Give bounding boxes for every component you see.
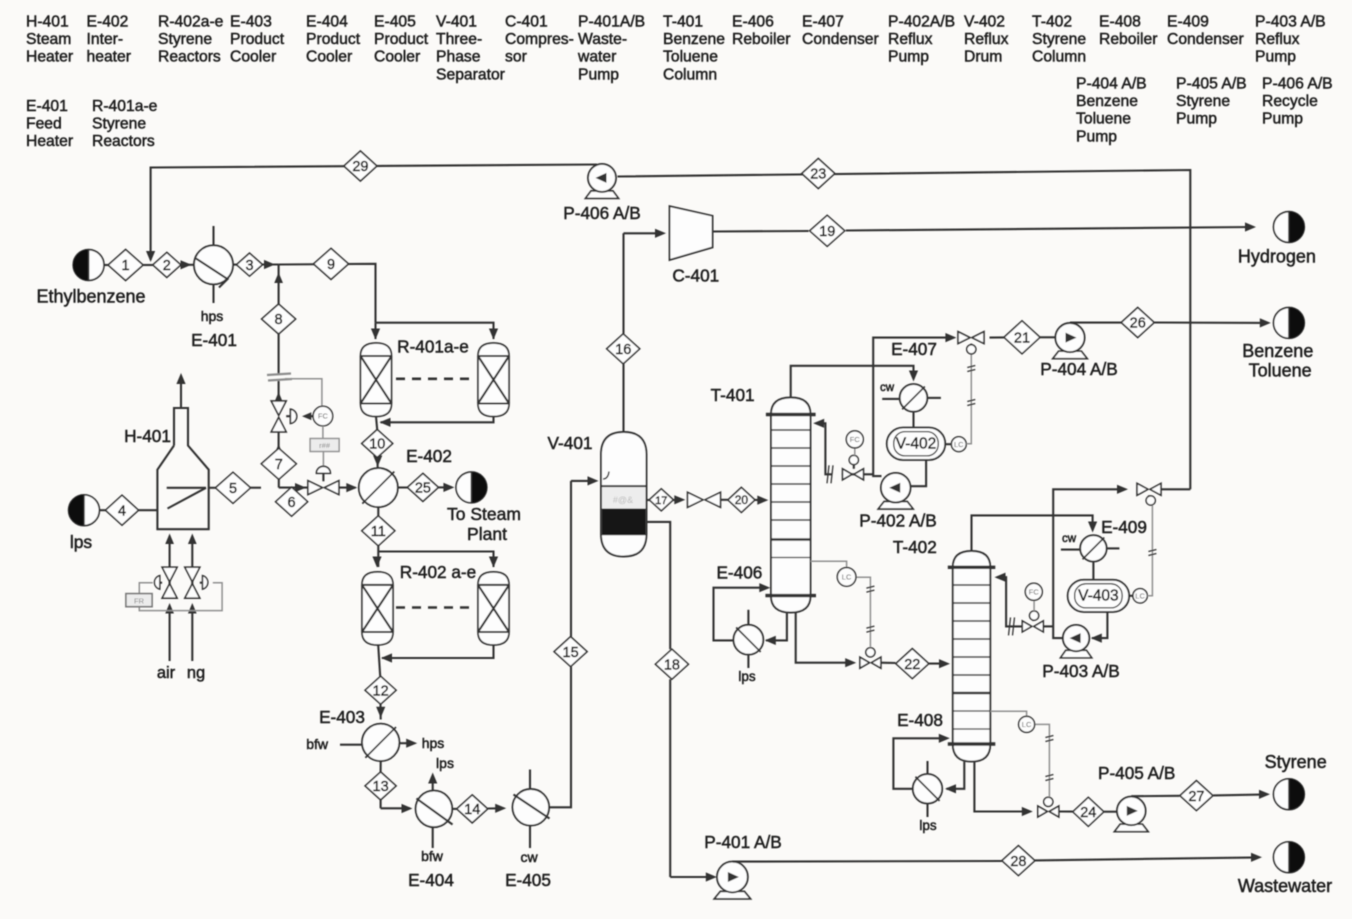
wire P-402 discharge riser [873, 333, 956, 476]
exchanger E-403 [362, 724, 399, 761]
wire E-407 to V-402 [912, 412, 914, 428]
wire bfw into E-404 [432, 827, 434, 848]
svg-text:2: 2 [163, 258, 171, 274]
valve air [162, 567, 177, 598]
pump P-402 A/B [878, 473, 913, 509]
svg-text:R-401a-e: R-401a-e [397, 337, 469, 357]
actuator distillate valve [967, 345, 976, 354]
stream diamond 18 [655, 649, 688, 679]
svg-text:C-401: C-401 [505, 14, 548, 31]
label P-401 A/B [704, 832, 781, 852]
wire T-402 bottoms [974, 762, 1032, 817]
svg-text:C-401: C-401 [672, 266, 719, 286]
valve T-401 distillate [958, 332, 984, 345]
svg-text:Product: Product [306, 31, 361, 48]
svg-text:lps: lps [738, 669, 756, 684]
label Wastewater [1238, 876, 1332, 896]
svg-text:P-402A/B: P-402A/B [888, 14, 955, 31]
level controller LC V-403 [1129, 589, 1147, 603]
wire T-402 overhead to E-409 [972, 515, 1098, 551]
svg-text:Product: Product [230, 31, 285, 48]
label cw E-407 [880, 382, 895, 394]
svg-text:Pump: Pump [1262, 111, 1303, 128]
column T-402 [948, 551, 996, 762]
svg-text:V-401: V-401 [436, 14, 477, 31]
svg-text:Pump: Pump [1255, 49, 1296, 66]
svg-text:Heater: Heater [26, 49, 73, 66]
wire stream 24 to P-405 [1059, 810, 1117, 812]
ratio relay box [310, 439, 339, 452]
svg-text:19: 19 [819, 224, 835, 240]
label P-403 A/B [1042, 661, 1119, 681]
svg-text:hps: hps [201, 308, 224, 324]
label cw E-409 [1062, 533, 1077, 545]
svg-text:R-402a-e: R-402a-e [158, 14, 224, 31]
wire stream 29 recycle to feed [146, 165, 597, 263]
svg-text:P-402 A/B: P-402 A/B [859, 511, 936, 531]
svg-text:29: 29 [352, 159, 368, 175]
wire stream 22 to T-402 [881, 659, 950, 668]
furnace stack vent arrow [176, 373, 185, 408]
svg-text:Reflux: Reflux [964, 31, 1009, 48]
svg-text:bfw: bfw [421, 848, 444, 864]
stream diamond 22 [896, 649, 929, 679]
svg-text:P-405 A/B: P-405 A/B [1098, 763, 1175, 783]
wire V-401 vapor to C-401 stream 16 [624, 229, 667, 432]
stream diamond 13 [365, 772, 396, 800]
wire air line [165, 534, 174, 662]
signal loop air ng [139, 583, 222, 611]
svg-text:T-402: T-402 [1032, 14, 1072, 31]
svg-text:lps: lps [70, 532, 93, 552]
reflux drum V-403 [1068, 580, 1129, 612]
svg-text:Benzene: Benzene [663, 31, 725, 48]
svg-text:Column: Column [1032, 49, 1086, 66]
svg-text:E-403: E-403 [230, 14, 272, 31]
actuator T-402 reflux valve [1030, 611, 1039, 621]
svg-text:cw: cw [880, 382, 895, 394]
svg-text:Reboiler: Reboiler [732, 31, 790, 48]
label bfw E-404 [421, 848, 444, 864]
label Hydrogen [1238, 247, 1316, 267]
pump P-405 A/B [1114, 797, 1148, 832]
svg-text:Three-: Three- [436, 31, 482, 48]
pump P-404 A/B [1053, 323, 1087, 359]
svg-text:To Steam: To Steam [447, 504, 521, 524]
stream diamond 4 [106, 495, 139, 525]
svg-text:E-402: E-402 [87, 14, 129, 31]
svg-text:lps: lps [436, 755, 454, 771]
label E-402 [406, 446, 452, 466]
signal wire LC V-402 to valve [966, 355, 975, 444]
svg-text:cw: cw [520, 849, 538, 865]
label P-404 A/B [1040, 359, 1117, 379]
wire ng line [188, 534, 197, 662]
equipment legend row 2 right [1076, 76, 1333, 146]
label E-406 [716, 563, 762, 583]
valve on steam line [271, 401, 286, 432]
wire R-401 return [380, 417, 494, 427]
label R-402 a-e [400, 562, 476, 582]
svg-text:P-403 A/B: P-403 A/B [1255, 14, 1326, 31]
wire E-403 to E-404 [381, 761, 413, 813]
output Wastewater [1274, 842, 1305, 873]
svg-text:28: 28 [1010, 854, 1026, 870]
dashed link R-402 [396, 606, 474, 609]
control valve feed to E-402 [308, 481, 339, 495]
svg-text:E-408: E-408 [897, 710, 943, 730]
label Benzene Toluene [1242, 341, 1313, 381]
svg-text:Styrene: Styrene [1265, 752, 1327, 772]
svg-text:25: 25 [415, 481, 431, 497]
stream diamond 19 [810, 215, 845, 246]
wire T-401 overhead to E-407 [791, 366, 918, 397]
svg-text:FC: FC [318, 412, 329, 421]
svg-text:16: 16 [615, 342, 631, 358]
compressor C-401 [670, 206, 713, 260]
svg-text:P-405 A/B: P-405 A/B [1176, 76, 1247, 93]
output Benzene Toluene [1274, 308, 1305, 339]
svg-text:Benzene: Benzene [1076, 93, 1138, 110]
svg-text:P-401A/B: P-401A/B [578, 14, 645, 31]
svg-text:sor: sor [505, 49, 527, 66]
svg-text:E-401: E-401 [191, 330, 237, 350]
wire E-404 to E-405 [452, 804, 506, 813]
stream diamond 8 [262, 304, 296, 334]
wire R-402 outlet [376, 645, 385, 720]
reflux drum V-402 [887, 428, 945, 460]
svg-text:Inter-: Inter- [87, 31, 124, 48]
exchanger E-407 [882, 384, 941, 412]
actuator T-402 bottoms valve [1044, 797, 1053, 806]
level controller LC T-401 [837, 568, 856, 587]
svg-text:Recycle: Recycle [1262, 93, 1318, 110]
label E-405 [505, 870, 551, 890]
controller FC T-402 [1025, 583, 1042, 611]
svg-text:R-402 a-e: R-402 a-e [400, 562, 476, 582]
pump P-401 A/B [714, 862, 750, 899]
exchanger E-409 [1061, 535, 1120, 561]
svg-text:3: 3 [245, 258, 253, 274]
svg-text:Compres-: Compres- [505, 31, 574, 48]
label bfw E-403 [306, 736, 329, 752]
control valve T-401 bottoms [860, 657, 881, 668]
pump P-403 A/B [1061, 625, 1092, 658]
svg-text:11: 11 [371, 524, 386, 540]
label hps E-401 [201, 308, 224, 324]
svg-text:Separator: Separator [436, 66, 505, 83]
wire R-401 outlet to E-402 [373, 417, 382, 469]
svg-text:V-403: V-403 [1078, 587, 1119, 604]
positioner D symbol [286, 409, 313, 423]
svg-text:Plant: Plant [467, 524, 507, 544]
svg-text:Column: Column [663, 66, 717, 83]
wire furnace outlet stream 5 [209, 483, 308, 492]
valve recycle [1137, 483, 1161, 496]
stream diamond 5 [216, 472, 251, 503]
stream diamond 7 [261, 448, 296, 479]
svg-text:T-401: T-401 [663, 14, 703, 31]
label P-402 A/B [859, 511, 936, 531]
wire stream 3 to junction [233, 260, 279, 269]
stream diamond 28 [1002, 846, 1035, 876]
control valve actuator dome feed [316, 466, 330, 481]
svg-text:Cooler: Cooler [374, 49, 420, 66]
label lps E-408 [919, 818, 937, 833]
signal wire LC T-401 [811, 561, 875, 647]
level controller LC V-402 [945, 437, 966, 452]
furnace H-401 [157, 408, 208, 529]
svg-text:ng: ng [187, 664, 205, 682]
svg-text:E-407: E-407 [891, 339, 937, 359]
svg-text:Cooler: Cooler [230, 49, 276, 66]
wire E-402 inlet from valve [339, 483, 357, 492]
svg-text:P-406 A/B: P-406 A/B [563, 203, 640, 223]
wire bfw into E-403 [340, 744, 362, 746]
svg-text:E-409: E-409 [1167, 14, 1209, 31]
svg-text:Styrene: Styrene [1176, 93, 1230, 110]
label ng [187, 664, 205, 682]
wire feed line mix [181, 260, 195, 269]
svg-text:Pump: Pump [1176, 111, 1217, 128]
svg-text:E-403: E-403 [319, 707, 365, 727]
svg-text:P-406 A/B: P-406 A/B [1262, 76, 1333, 93]
stream diamond 23 [802, 159, 835, 189]
svg-text:7: 7 [275, 457, 283, 473]
svg-text:1: 1 [122, 258, 130, 274]
wire lps to furnace [99, 509, 157, 511]
wire junction to stream 9 corner [279, 264, 376, 323]
wire recycle valve to stream 23 riser [1161, 488, 1190, 490]
label cw E-405 [520, 849, 538, 865]
svg-text:14: 14 [464, 802, 480, 818]
stream diamond 2 [153, 252, 181, 277]
svg-text:FR: FR [134, 596, 145, 605]
svg-text:R-401a-e: R-401a-e [92, 98, 158, 115]
svg-text:P-403 A/B: P-403 A/B [1042, 661, 1119, 681]
svg-text:cw: cw [1062, 533, 1077, 545]
svg-text:20: 20 [735, 493, 749, 507]
signal wire LC V-403 to recycle valve [1147, 506, 1156, 596]
svg-text:FC: FC [1029, 587, 1040, 596]
label T-401 [711, 385, 755, 405]
equipment legend row 1 [26, 14, 1326, 84]
valve V-401 outlet [688, 492, 721, 507]
svg-text:r##: r## [319, 441, 331, 450]
svg-text:18: 18 [664, 657, 680, 673]
svg-text:Styrene: Styrene [158, 31, 212, 48]
wire V-402 to P-402 [911, 460, 926, 486]
label air [157, 664, 176, 682]
svg-text:22: 22 [904, 657, 920, 673]
svg-text:4: 4 [118, 503, 126, 519]
wire E-405 to V-401 stream 15 [549, 476, 598, 807]
wire C-401 to Hydrogen stream 19 [713, 222, 1256, 231]
stream diamond 15 [554, 637, 587, 667]
svg-text:E-408: E-408 [1099, 14, 1141, 31]
svg-text:Pump: Pump [888, 49, 929, 66]
label E-401 [191, 330, 237, 350]
svg-text:27: 27 [1188, 789, 1204, 805]
wire E-406 inlet [765, 613, 787, 646]
svg-text:H-401: H-401 [124, 426, 171, 446]
label T-402 [893, 537, 937, 557]
exchanger E-402 [359, 468, 398, 507]
reactor R-402e (right) [478, 572, 509, 645]
actuator ng valve [200, 576, 208, 590]
stream diamond 24 [1073, 797, 1104, 826]
wire V-401 oil to T-401 [647, 495, 769, 505]
reactor R-401e (right) [478, 343, 509, 417]
svg-text:Reflux: Reflux [888, 31, 933, 48]
wire E-402 to To Steam Plant [398, 483, 455, 492]
input Ethylbenzene [73, 250, 104, 281]
wire stream 23 from recycle valve to P-406 suction [618, 170, 1191, 489]
svg-text:E-405: E-405 [374, 14, 416, 31]
svg-text:E-406: E-406 [732, 14, 774, 31]
svg-text:9: 9 [327, 257, 335, 273]
exchanger E-404 [416, 791, 453, 828]
stream diamond 27 [1180, 781, 1213, 811]
label E-404 [408, 870, 454, 890]
svg-text:Reflux: Reflux [1255, 31, 1300, 48]
svg-text:lps: lps [919, 818, 937, 833]
exchanger E-405 [513, 770, 550, 826]
svg-text:LC: LC [954, 440, 964, 449]
label lps E-404 [436, 755, 454, 771]
actuator bottoms valve T-401 [866, 648, 875, 657]
label lps feed [70, 532, 93, 552]
reactor R-402a (left) [362, 572, 393, 645]
stream diamond 1 [108, 250, 143, 281]
output Styrene [1274, 779, 1305, 810]
wire P-405 to Styrene stream 27 [1131, 790, 1270, 799]
svg-text:hps: hps [422, 735, 445, 751]
svg-text:Styrene: Styrene [92, 116, 146, 133]
svg-text:V-401: V-401 [548, 433, 593, 453]
wire feed line 1 [104, 264, 153, 266]
svg-text:Styrene: Styrene [1032, 31, 1086, 48]
svg-text:air: air [157, 664, 176, 682]
svg-text:6: 6 [288, 495, 296, 511]
label hps E-403 [422, 735, 445, 751]
svg-text:24: 24 [1080, 805, 1096, 821]
actuator T-401 reflux valve [849, 455, 858, 464]
stream diamond 26 [1121, 308, 1154, 338]
wire E-408 return [893, 734, 949, 789]
svg-text:E-406: E-406 [716, 563, 762, 583]
signal wire LC T-402 [990, 711, 1053, 797]
svg-text:Reboiler: Reboiler [1099, 31, 1157, 48]
wire 21 to P-404 [990, 336, 1056, 338]
label H-401 [124, 426, 171, 446]
svg-text:V-402: V-402 [896, 435, 937, 452]
wire E-409 to V-403 [1092, 562, 1094, 580]
wire P-401 to Wastewater stream 28 [732, 853, 1262, 862]
svg-text:26: 26 [1130, 316, 1146, 332]
wire V-401 water stream 18 [647, 522, 717, 882]
svg-text:Product: Product [374, 31, 429, 48]
svg-text:Drum: Drum [964, 49, 1002, 66]
label C-401 [672, 266, 719, 286]
reactor R-401a (left) [361, 343, 392, 417]
actuator air valve [154, 576, 162, 590]
svg-text:5: 5 [229, 481, 237, 497]
svg-text:Reactors: Reactors [158, 49, 221, 66]
svg-text:FC: FC [850, 435, 861, 444]
wire split to R-402 right [378, 552, 498, 568]
label Styrene [1265, 752, 1327, 772]
label To Steam Plant [447, 504, 521, 544]
svg-text:E-407: E-407 [802, 14, 844, 31]
controller box air ng [126, 594, 152, 607]
svg-text:LC: LC [842, 573, 852, 582]
stream diamond 29 [344, 151, 377, 181]
wire hps out of E-403 [399, 739, 417, 748]
valve ng [185, 567, 200, 598]
exchanger E-401 [194, 226, 233, 303]
svg-text:13: 13 [373, 779, 389, 795]
controller FC feed [313, 406, 333, 426]
svg-text:Pump: Pump [578, 66, 619, 83]
svg-text:P-401 A/B: P-401 A/B [704, 832, 781, 852]
wire P-403 discharge riser [1053, 485, 1128, 638]
wire R-402 return [381, 645, 494, 663]
svg-text:Wastewater: Wastewater [1238, 876, 1332, 896]
svg-text:Pump: Pump [1076, 128, 1117, 145]
label lps E-406 [738, 669, 756, 684]
exchanger E-408 [913, 761, 942, 817]
svg-text:Ethylbenzene: Ethylbenzene [36, 287, 145, 307]
label P-405 A/B [1098, 763, 1175, 783]
wire E-402 down to R-402 [372, 507, 381, 567]
controller FC T-401 [846, 431, 863, 456]
equipment legend row 2 left [26, 98, 158, 150]
label E-407 [891, 339, 937, 359]
svg-text:Condenser: Condenser [802, 31, 879, 48]
svg-text:23: 23 [810, 167, 826, 183]
wire V-403 to P-403 [1091, 612, 1108, 643]
svg-text:10: 10 [369, 437, 385, 453]
vessel V-401 [601, 432, 647, 557]
wire stream 8 steam line [274, 265, 283, 488]
level controller LC T-402 [1019, 716, 1035, 732]
svg-text:heater: heater [87, 49, 131, 66]
svg-text:Cooler: Cooler [306, 49, 352, 66]
actuator recycle valve [1146, 496, 1155, 505]
output To Steam Plant [456, 472, 487, 503]
svg-text:Toluene: Toluene [1076, 111, 1131, 128]
vent break symbol [267, 374, 292, 381]
input lps [69, 495, 100, 526]
stream diamond 3 [237, 253, 263, 276]
output Hydrogen [1274, 212, 1305, 243]
svg-text:E-401: E-401 [26, 98, 68, 115]
svg-text:E-405: E-405 [505, 870, 551, 890]
signal wire FC to ratio box [322, 426, 324, 439]
wire lps out E-404 [428, 773, 437, 791]
label P-406 A/B [563, 203, 640, 223]
label E-403 [319, 707, 365, 727]
svg-text:#@&: #@& [613, 495, 633, 505]
svg-text:bfw: bfw [306, 736, 329, 752]
svg-text:P-404 A/B: P-404 A/B [1040, 359, 1117, 379]
svg-text:E-402: E-402 [406, 446, 452, 466]
stream diamond 20 [728, 487, 755, 512]
svg-text:Benzene: Benzene [1242, 341, 1313, 361]
wire feed split to R-401 reactors [371, 323, 498, 340]
svg-text:Heater: Heater [26, 133, 73, 150]
